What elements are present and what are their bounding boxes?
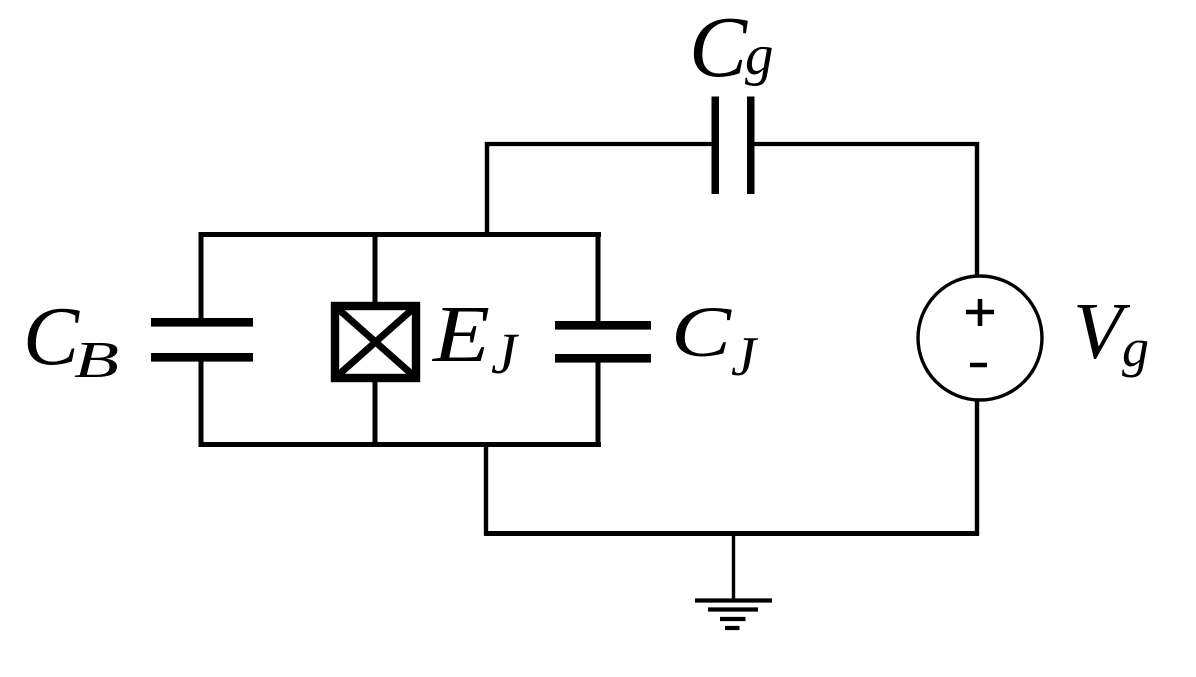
wire right edge lower segment: [596, 361, 601, 447]
wire left edge upper segment: [199, 232, 204, 319]
wire top-right from Cg right plate to Vg branch: [753, 142, 979, 146]
svg-text:C: C: [689, 0, 748, 95]
wire below Vg down to ground rail: [975, 400, 979, 535]
plus sign: [966, 299, 994, 326]
svg-text:E: E: [432, 291, 490, 379]
capacitor CJ: [555, 321, 651, 363]
label CB: [23, 290, 119, 389]
wire drop left at x=487 down to island top: [485, 142, 489, 237]
Josephson junction EJ box: [335, 306, 416, 378]
capacitor Cg: [712, 97, 755, 195]
label CJ: [671, 292, 759, 388]
wire right edge upper segment: [596, 232, 601, 322]
label EJ: [432, 291, 520, 386]
minus sign: [970, 363, 987, 368]
wire left edge lower segment: [199, 361, 204, 447]
wire junction branch lower segment: [373, 378, 378, 447]
wire drop right at x=977 down to Vg source: [975, 142, 979, 277]
bottom ground rail wire: [484, 531, 979, 536]
svg-text:J: J: [491, 321, 520, 386]
voltage source Vg circle: [918, 276, 1042, 400]
wire junction branch upper segment: [373, 232, 378, 306]
svg-text:g: g: [745, 24, 774, 87]
label Vg: [1073, 286, 1149, 378]
ground symbol: [695, 536, 772, 628]
island box bottom wire: [199, 442, 601, 447]
wire top-left from node A to Cg left plate: [485, 142, 713, 146]
island box top wire: [199, 232, 601, 237]
svg-text:g: g: [1122, 318, 1149, 378]
label Cg: [689, 0, 774, 95]
svg-text:C: C: [23, 290, 80, 383]
wire drop from island bottom to ground rail: [484, 443, 488, 535]
capacitor CB: [151, 318, 253, 362]
svg-text:C: C: [671, 292, 732, 372]
svg-text:J: J: [731, 326, 759, 388]
svg-text:B: B: [74, 332, 119, 389]
